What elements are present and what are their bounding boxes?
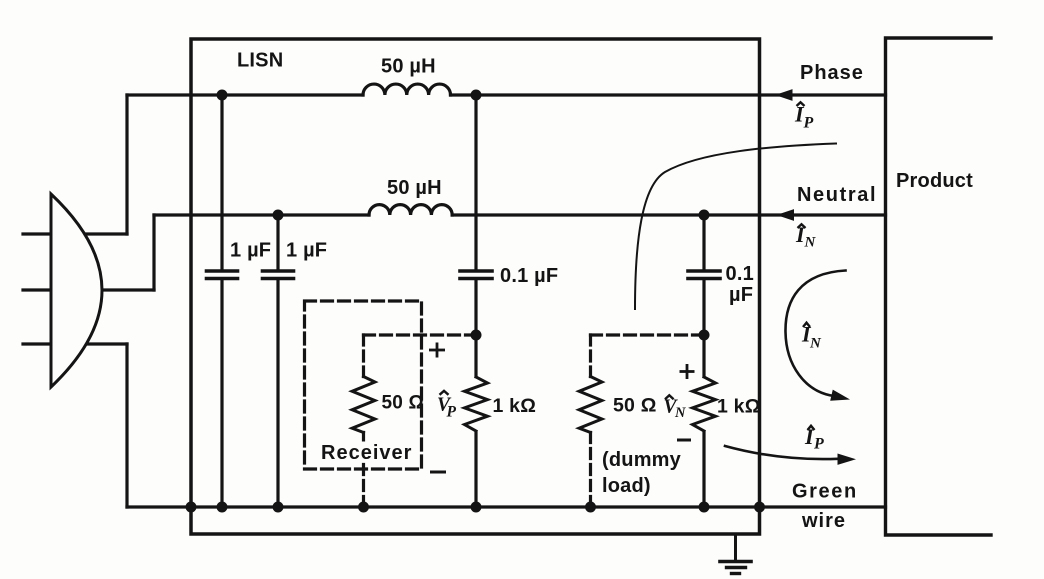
wire: green riser from plug	[125, 344, 128, 507]
junction: dummy load tap node	[699, 330, 710, 341]
measurement pointer curve from dummy load to Ip	[635, 144, 836, 310]
svg-text:1 µF: 1 µF	[286, 240, 327, 262]
svg-text:Product: Product	[896, 170, 973, 192]
capacitor C4 0.1 uF branch wire (upper)	[702, 215, 705, 269]
capacitor C2 branch wire (lower)	[276, 281, 279, 507]
svg-text:(dummy: (dummy	[602, 449, 682, 471]
svg-text:0.1 µF: 0.1 µF	[500, 265, 558, 287]
wire: green wire horizontal run	[127, 505, 886, 508]
svg-text:50 Ω: 50 Ω	[382, 393, 424, 414]
svg-text:50 µH: 50 µH	[381, 56, 436, 78]
junction: green wire / R2	[471, 502, 482, 513]
svg-text:Phase: Phase	[800, 62, 864, 84]
arrowhead: phase current into LISN	[775, 89, 793, 101]
capacitor C1 branch wire (lower)	[220, 281, 223, 507]
label Ip (green wire return)	[804, 424, 824, 453]
junction: green wire / LISN left wall	[186, 502, 197, 513]
junction: green wire / R4	[699, 502, 710, 513]
svg-text:Green: Green	[792, 481, 858, 503]
polarity + (receiver)	[429, 349, 445, 352]
ground symbol stem	[734, 534, 737, 560]
svg-text:50 µH: 50 µH	[387, 177, 442, 199]
capacitor C3 0.1 uF branch wire (upper)	[474, 95, 477, 269]
resistor R3 50 Ohm (dummy load)	[579, 377, 602, 433]
label Ip (phase current at product)	[794, 102, 814, 132]
dashed wire: receiver tap to node on C3 branch	[364, 333, 472, 336]
wire: phase riser from plug	[125, 95, 128, 234]
wire: C3 to node	[474, 281, 477, 377]
curved arrow: In circulating current	[785, 271, 845, 397]
capacitor C4 plates	[688, 269, 720, 273]
junction: green wire / dummy lead	[585, 502, 596, 513]
polarity - (dummy)	[677, 439, 691, 442]
label Vp (receiver voltage)	[437, 391, 457, 421]
svg-text:P: P	[813, 436, 824, 453]
wire: C4 to node	[702, 281, 705, 377]
svg-text:N: N	[804, 235, 817, 251]
svg-text:1 kΩ: 1 kΩ	[717, 396, 761, 418]
inductor L2 50 uH	[369, 205, 452, 215]
AC plug body	[51, 194, 102, 387]
curved arrow: Ip return current	[725, 446, 838, 459]
wire: Neutral line (left of L2)	[154, 213, 369, 216]
junction: green wire / C2	[273, 502, 284, 513]
dashed wire: receiver lead lower	[362, 433, 365, 508]
label Receiver (with backing)	[317, 442, 411, 463]
capacitor C3 plates	[460, 269, 492, 273]
wire: neutral riser from plug	[152, 215, 155, 290]
dashed wire: receiver lead upper	[362, 335, 365, 377]
AC plug prong (phase pin)	[23, 232, 127, 235]
junction: receiver tap node	[471, 330, 482, 341]
svg-text:Neutral: Neutral	[797, 184, 877, 206]
junction: green wire / receiver lead	[358, 502, 369, 513]
svg-text:1 kΩ: 1 kΩ	[493, 395, 537, 417]
wire: Neutral line (right of L2)	[452, 213, 885, 216]
junction: green wire / C1	[217, 502, 228, 513]
junction: green wire / LISN right wall	[754, 502, 765, 513]
capacitor C2 plates	[263, 269, 294, 273]
svg-text:0.1: 0.1	[726, 263, 754, 285]
Product box	[886, 38, 992, 535]
AC plug prong (neutral pin)	[23, 288, 154, 291]
label In (circulating)	[801, 322, 822, 352]
polarity - (receiver)	[430, 471, 446, 474]
junction: phase/C3	[471, 90, 482, 101]
svg-text:load): load)	[602, 475, 651, 497]
dashed wire: dummy load tap to node on C4 branch	[591, 333, 701, 336]
wire: R2 to green wire	[474, 433, 477, 508]
resistor R1 50 Ohm (receiver input)	[352, 377, 375, 433]
svg-text:P: P	[803, 115, 814, 132]
label Vn (dummy load voltage)	[664, 395, 687, 421]
ground symbol bars	[720, 560, 751, 564]
junction: neutral/C2	[273, 210, 284, 221]
dashed wire: dummy load lead upper	[589, 335, 592, 377]
svg-text:Receiver: Receiver	[321, 442, 412, 464]
junction: neutral/C4	[699, 210, 710, 221]
arrowhead: neutral current into LISN	[777, 209, 795, 221]
resistor R4 1 kOhm	[693, 377, 716, 431]
junction: phase/C1	[217, 90, 228, 101]
LISN enclosure box	[191, 39, 760, 534]
svg-text:N: N	[674, 405, 686, 421]
svg-text:µF: µF	[729, 284, 753, 306]
svg-text:1 µF: 1 µF	[230, 240, 271, 262]
wire: Phase line (left of L1)	[127, 93, 363, 96]
svg-text:wire: wire	[801, 510, 846, 532]
capacitor C1 1 uF branch wire (upper)	[220, 95, 223, 269]
polarity + (dummy)	[680, 370, 695, 373]
svg-text:P: P	[447, 404, 457, 421]
Receiver dashed enclosure	[305, 301, 422, 469]
svg-text:N: N	[809, 335, 822, 351]
resistor R2 1 kOhm	[465, 377, 488, 431]
arrowhead: Ip curved arrow	[838, 454, 857, 465]
wire: R4 to green wire	[702, 433, 705, 508]
wire: Phase line (right of L1)	[451, 93, 886, 96]
svg-text:50 Ω: 50 Ω	[613, 395, 657, 417]
capacitor C2 1 uF branch wire (upper)	[276, 215, 279, 269]
capacitor C1 plates	[207, 269, 238, 273]
AC plug prong (ground pin)	[23, 342, 127, 345]
svg-text:LISN: LISN	[237, 50, 283, 72]
arrowhead: In curved arrow	[830, 390, 851, 405]
label In (neutral current at product)	[795, 222, 817, 251]
inductor L1 50 uH	[363, 84, 451, 95]
dashed wire: dummy load lead lower	[589, 433, 592, 508]
